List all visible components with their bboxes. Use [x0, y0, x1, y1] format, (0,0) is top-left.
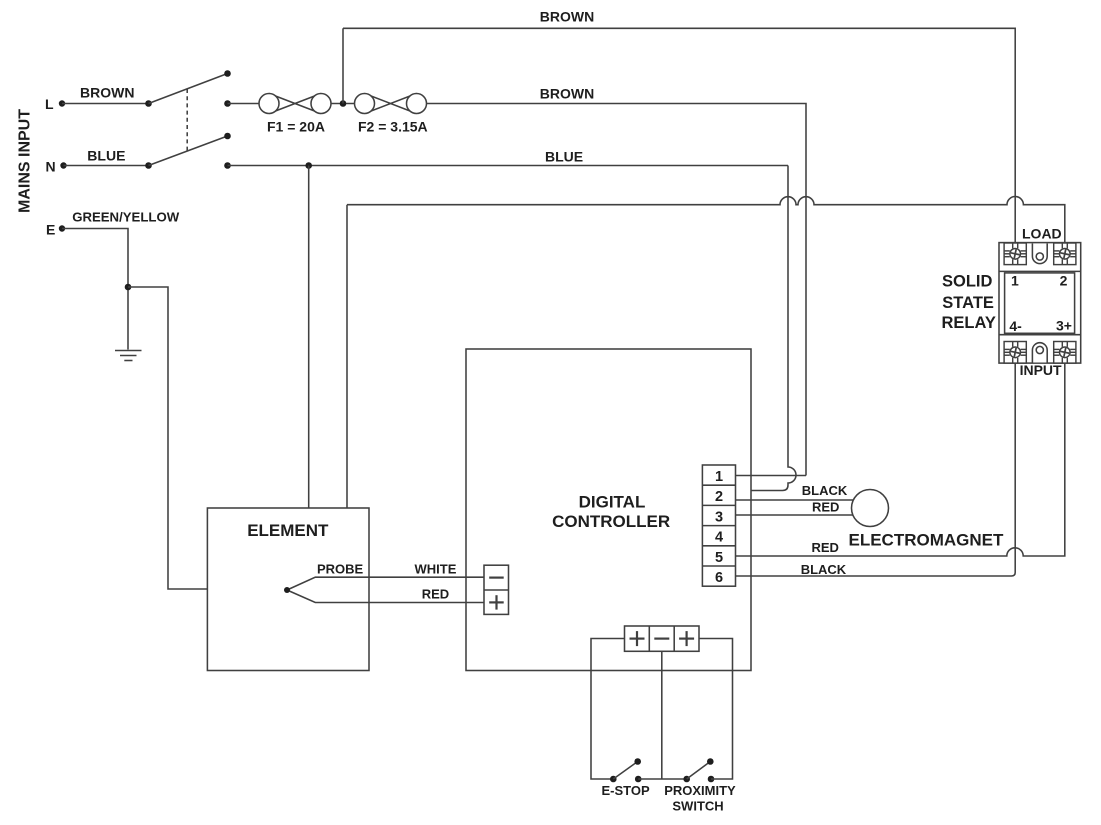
- terminal E: [59, 225, 65, 231]
- svg-text:ELEMENT: ELEMENT: [247, 521, 329, 540]
- SSR load screw 2: [1054, 243, 1076, 265]
- wire terminal 6 to SSR 4-: [736, 363, 1016, 576]
- wire terminal 2 to electromagnet black: [736, 499, 854, 501]
- wire switch to F1: [228, 103, 260, 105]
- controller power terminal block + - +: [625, 626, 700, 651]
- svg-text:E: E: [46, 222, 55, 238]
- svg-text:1: 1: [715, 469, 723, 485]
- svg-text:RED: RED: [812, 500, 839, 515]
- wire brown top riser: [342, 28, 344, 103]
- svg-text:E-STOP: E-STOP: [602, 783, 650, 798]
- svg-text:SWITCH: SWITCH: [672, 799, 723, 814]
- wire probe red: [287, 590, 484, 603]
- svg-text:BROWN: BROWN: [80, 85, 134, 101]
- svg-text:BROWN: BROWN: [540, 9, 594, 25]
- svg-text:ELECTROMAGNET: ELECTROMAGNET: [849, 531, 1005, 550]
- node earth junction: [125, 284, 132, 291]
- solid state relay body: [999, 243, 1081, 364]
- svg-text:F1 = 20A: F1 = 20A: [267, 119, 325, 135]
- svg-text:STATE: STATE: [942, 294, 994, 312]
- node junction F1/F2: [331, 103, 355, 105]
- wire E to ground: [62, 229, 128, 350]
- svg-text:5: 5: [715, 550, 723, 566]
- switch pole N: [145, 162, 152, 169]
- svg-text:2: 2: [715, 489, 723, 505]
- wire brown top run to SSR load 1: [343, 28, 1015, 243]
- svg-text:4-: 4-: [1009, 318, 1022, 334]
- svg-text:RELAY: RELAY: [942, 314, 996, 332]
- svg-text:BLUE: BLUE: [87, 148, 125, 164]
- node blue/element junction: [305, 162, 312, 169]
- svg-text:DIGITAL: DIGITAL: [579, 493, 646, 512]
- svg-text:BLACK: BLACK: [801, 562, 847, 577]
- ground symbol: [115, 350, 142, 352]
- svg-text:RED: RED: [812, 540, 839, 555]
- svg-text:BROWN: BROWN: [540, 86, 594, 102]
- svg-text:4: 4: [715, 530, 723, 546]
- wire L to switch: [62, 103, 149, 105]
- proximity switch: [683, 776, 690, 783]
- svg-text:F2 = 3.15A: F2 = 3.15A: [358, 119, 428, 135]
- probe junction dot: [284, 587, 290, 593]
- svg-text:BLACK: BLACK: [802, 483, 848, 498]
- wire - middle riser: [661, 651, 663, 779]
- wire blue run: [228, 165, 789, 167]
- SSR bottom mounting tab: [1032, 343, 1047, 363]
- svg-text:1: 1: [1011, 273, 1019, 289]
- wire N to switch: [64, 165, 149, 167]
- svg-text:WHITE: WHITE: [415, 562, 457, 577]
- e-stop switch: [610, 776, 617, 783]
- terminal N: [60, 162, 66, 168]
- svg-text:MAINS INPUT: MAINS INPUT: [17, 109, 34, 213]
- svg-text:LOAD: LOAD: [1022, 226, 1062, 242]
- wire probe white: [287, 577, 484, 590]
- element box: [207, 508, 369, 671]
- svg-text:2: 2: [1060, 272, 1068, 288]
- wire element leg from blue junction: [308, 166, 310, 509]
- wire terminal 5 to SSR 3+ (hops terminal6 riser): [736, 363, 1065, 556]
- wire terminal 3 to electromagnet red: [736, 514, 854, 516]
- svg-text:L: L: [45, 96, 54, 112]
- wire + left to e-stop: [591, 639, 625, 780]
- svg-text:PROXIMITY: PROXIMITY: [664, 783, 736, 798]
- SSR input screw 3+: [1054, 342, 1076, 364]
- svg-text:SOLID: SOLID: [942, 273, 993, 291]
- wire proximity to + right: [699, 639, 733, 780]
- digital controller box: [466, 349, 751, 671]
- svg-text:PROBE: PROBE: [317, 562, 364, 577]
- electromagnet: [852, 490, 889, 527]
- svg-text:3: 3: [715, 509, 723, 525]
- wire blue riser to controller terminal 2 (hops terminal1 wire): [736, 166, 797, 491]
- fuse F2: [365, 94, 417, 114]
- SSR top mounting tab: [1032, 244, 1047, 264]
- svg-text:CONTROLLER: CONTROLLER: [552, 512, 670, 531]
- svg-text:RED: RED: [422, 587, 449, 602]
- SSR load screw 1: [1004, 243, 1026, 265]
- fuse F1: [269, 94, 321, 114]
- svg-text:INPUT: INPUT: [1020, 362, 1062, 378]
- wire earth to element case: [128, 287, 207, 589]
- svg-text:6: 6: [715, 570, 723, 586]
- svg-text:GREEN/YELLOW: GREEN/YELLOW: [72, 210, 180, 225]
- switch pole L: [145, 100, 152, 107]
- wire terminal 1 to brown riser: [736, 475, 807, 477]
- wire brown F2 to controller terminal 1: [427, 104, 807, 476]
- controller terminal strip 1-6: [702, 465, 735, 586]
- wire element leg from SSR load 2 (hops at 787,806,1015): [347, 196, 1065, 508]
- SSR input screw 4-: [1004, 342, 1026, 364]
- terminal L: [59, 100, 65, 106]
- wire e-stop to proximity switch: [638, 778, 687, 780]
- probe sensor terminal block - / +: [484, 565, 509, 614]
- switch mechanical link (dashed): [186, 89, 188, 152]
- svg-text:3+: 3+: [1056, 318, 1072, 334]
- svg-text:N: N: [46, 159, 56, 175]
- svg-text:BLUE: BLUE: [545, 149, 583, 165]
